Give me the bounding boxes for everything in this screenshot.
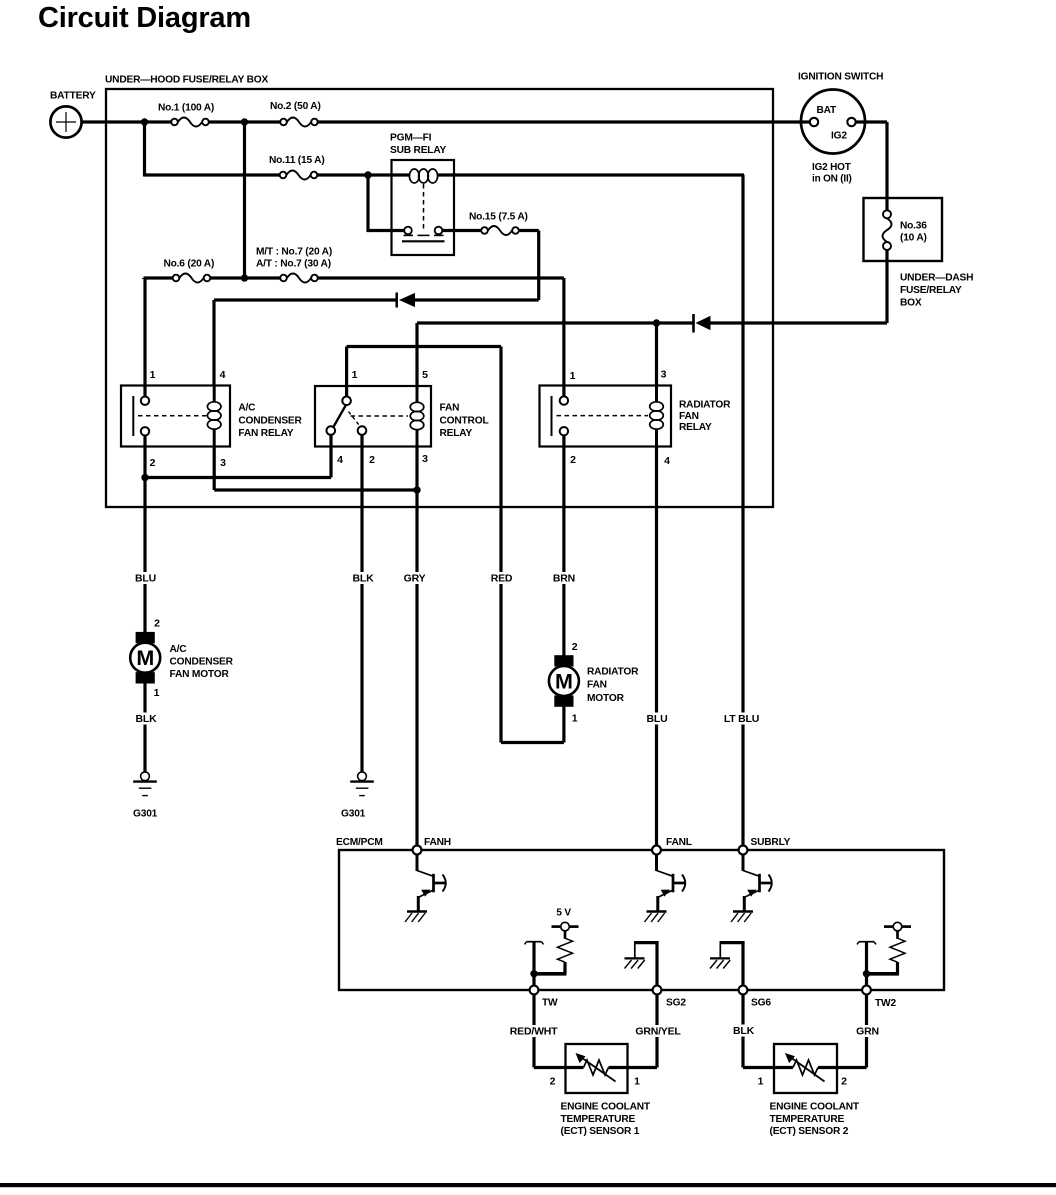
FCR switch arm — [333, 405, 346, 427]
svg-text:GRY: GRY — [404, 573, 426, 585]
svg-text:1: 1 — [634, 1075, 640, 1087]
No.6/No.7 fuse row — [144, 276, 174, 279]
svg-text:No.1 (100 A): No.1 (100 A) — [158, 103, 214, 114]
svg-text:(ECT) SENSOR 2: (ECT) SENSOR 2 — [770, 1126, 849, 1137]
transistor Q2 FANL driver — [652, 846, 661, 855]
fuse No.36 vertical — [883, 210, 891, 218]
svg-text:2: 2 — [154, 618, 160, 630]
svg-text:LT BLU: LT BLU — [724, 713, 759, 725]
wire color labels row 1 — [133, 572, 158, 584]
svg-text:No.11 (15 A): No.11 (15 A) — [269, 155, 325, 166]
ECM terminal FANL — [652, 846, 661, 855]
wire contact to No.15 fuse — [442, 229, 481, 232]
svg-text:RADIATOR: RADIATOR — [679, 400, 731, 411]
ECT sensor 2 — [774, 1044, 837, 1093]
node No.7 row junction — [241, 274, 248, 281]
svg-text:BRN: BRN — [553, 573, 575, 585]
wire SG6 to sensor2 pin1 — [741, 994, 744, 1067]
A/C condenser fan relay box — [121, 386, 230, 447]
svg-text:SUB RELAY: SUB RELAY — [390, 145, 447, 156]
svg-text:FAN RELAY: FAN RELAY — [238, 428, 293, 439]
svg-text:M: M — [555, 670, 573, 694]
svg-text:5: 5 — [422, 369, 428, 381]
PGM-FI sub relay armature dashed link — [423, 184, 425, 232]
svg-text:FAN: FAN — [587, 680, 607, 691]
ECM/PCM box — [339, 850, 944, 990]
svg-text:BAT: BAT — [817, 105, 838, 116]
ECM terminal SG6 — [739, 986, 748, 995]
svg-text:A/C: A/C — [238, 403, 256, 414]
ignition switch — [801, 90, 865, 154]
svg-text:UNDER—HOOD FUSE/RELAY BOX: UNDER—HOOD FUSE/RELAY BOX — [105, 75, 269, 86]
svg-text:MOTOR: MOTOR — [587, 693, 625, 704]
A/C relay contacts — [141, 397, 149, 405]
under-hood fuse/relay box — [106, 89, 773, 507]
wire A/C pin3 to FCR pin3 row — [213, 447, 216, 491]
node radiator relay coil feed — [653, 319, 660, 326]
svg-text:SG6: SG6 — [751, 998, 771, 1009]
svg-text:FAN: FAN — [679, 411, 699, 422]
wire motor to ground — [143, 682, 146, 772]
svg-text:1: 1 — [150, 369, 156, 381]
svg-text:TW: TW — [542, 998, 558, 1009]
wire No.15 to diode row — [519, 229, 539, 232]
ECM terminal TW — [530, 986, 539, 995]
wire BLU A/C pin2 down to motor — [143, 478, 146, 635]
svg-text:BLU: BLU — [135, 573, 156, 585]
wire label BLK — [134, 713, 159, 725]
transistor Q3 SUBRLY driver — [739, 846, 748, 855]
svg-text:RELAY: RELAY — [440, 428, 473, 439]
svg-text:RADIATOR: RADIATOR — [587, 667, 639, 678]
wire PGM-FI coil to LT BLU drop — [438, 173, 744, 176]
TW2 pull-up — [859, 941, 874, 943]
svg-text:M: M — [136, 646, 154, 670]
fuse No.7 — [280, 275, 287, 282]
radiator relay dashed link — [557, 415, 649, 417]
svg-text:A/T : No.7 (30 A): A/T : No.7 (30 A) — [256, 259, 331, 270]
svg-text:ENGINE COOLANT: ENGINE COOLANT — [561, 1101, 651, 1112]
sensor wire labels — [509, 1025, 558, 1037]
ground G301 right — [358, 772, 367, 781]
svg-text:SG2: SG2 — [666, 998, 686, 1009]
svg-text:in ON (II): in ON (II) — [812, 174, 852, 185]
diode D1 — [395, 293, 398, 308]
fuse No.1 100A — [171, 119, 178, 126]
A/C relay dashed link — [138, 415, 207, 417]
svg-text:2: 2 — [572, 641, 578, 653]
wire left drop to No.11 row — [143, 122, 146, 177]
wire No.6 to A/C relay pin 1 — [142, 278, 145, 279]
svg-text:2: 2 — [841, 1075, 847, 1087]
svg-text:4: 4 — [220, 369, 226, 381]
transistor Q1 FANH driver — [413, 846, 422, 855]
svg-text:GRN/YEL: GRN/YEL — [635, 1026, 681, 1038]
wire No.7 row to radiator relay pin 1 — [318, 276, 564, 279]
svg-text:No.36: No.36 — [900, 221, 927, 232]
svg-text:1: 1 — [758, 1075, 764, 1087]
svg-text:(ECT) SENSOR 1: (ECT) SENSOR 1 — [561, 1126, 640, 1137]
wire TW to sensor1 pin2 — [532, 994, 535, 1067]
svg-text:IGNITION SWITCH: IGNITION SWITCH — [798, 72, 883, 83]
wire SG2 to sensor1 pin1 — [655, 994, 658, 1067]
svg-text:FAN: FAN — [440, 403, 460, 414]
diode row upper (to A/C relay pin 4) — [212, 300, 215, 386]
svg-text:2: 2 — [150, 457, 156, 469]
node sub-relay contact feed — [364, 171, 371, 178]
wire BRN radiator pin2 down to motor — [562, 435, 565, 656]
radiator relay coil — [655, 386, 658, 403]
svg-text:No.15 (7.5 A): No.15 (7.5 A) — [469, 212, 528, 223]
wire GRY FCR pin3 down to ECM FANH — [415, 447, 418, 846]
svg-text:BLU: BLU — [647, 713, 668, 725]
svg-text:BLK: BLK — [353, 573, 375, 585]
ECM terminal SG2 — [653, 986, 662, 995]
wire RED vertical — [499, 347, 502, 743]
svg-text:G301: G301 — [133, 809, 158, 820]
battery — [50, 106, 81, 137]
PGM-FI sub relay coil — [409, 169, 419, 183]
svg-text:5 V: 5 V — [556, 907, 571, 918]
svg-text:2: 2 — [550, 1075, 556, 1087]
wire No.11 row to PGM-FI coil — [316, 173, 409, 176]
svg-text:A/C: A/C — [170, 644, 188, 655]
A/C relay contact bar — [132, 396, 134, 436]
svg-text:1: 1 — [570, 370, 576, 382]
svg-text:FAN MOTOR: FAN MOTOR — [170, 669, 230, 680]
svg-text:FANL: FANL — [666, 837, 692, 848]
svg-text:CONDENSER: CONDENSER — [238, 415, 302, 426]
fuse No.6 20A — [173, 275, 180, 282]
A/C relay coil — [213, 386, 216, 403]
svg-text:SUBRLY: SUBRLY — [751, 837, 791, 848]
svg-text:UNDER—DASH: UNDER—DASH — [900, 273, 973, 284]
svg-text:IG2 HOT: IG2 HOT — [812, 162, 851, 173]
wire LT BLU down to ECM SUBRLY — [741, 175, 744, 846]
wire A/C pin2 junction row — [143, 435, 146, 477]
wire drop to sub-relay contact — [366, 175, 369, 232]
radiator relay contact bar — [551, 396, 553, 436]
fuse No.11 15A — [280, 172, 287, 179]
svg-text:1: 1 — [572, 712, 578, 724]
PGM-FI sub relay contacts — [368, 229, 404, 232]
fuse No.2 50A — [280, 119, 287, 126]
svg-text:M/T : No.7 (20 A): M/T : No.7 (20 A) — [256, 247, 332, 258]
svg-text:BATTERY: BATTERY — [50, 90, 96, 101]
wire bus to ignition BAT — [317, 120, 811, 123]
svg-text:CONTROL: CONTROL — [440, 415, 489, 426]
ECM terminal TW2 — [862, 986, 871, 995]
FCR coil — [416, 386, 419, 403]
svg-text:BOX: BOX — [900, 297, 922, 308]
FCR common contact — [342, 397, 351, 406]
wire BLU radiator pin4 down to ECM FANL — [655, 447, 658, 846]
svg-text:2: 2 — [369, 454, 375, 466]
svg-text:3: 3 — [220, 457, 226, 469]
svg-text:PGM—FI: PGM—FI — [390, 133, 432, 144]
diode D2 — [692, 314, 695, 333]
svg-text:ENGINE COOLANT: ENGINE COOLANT — [770, 1101, 860, 1112]
svg-text:GRN: GRN — [856, 1026, 879, 1038]
bottom rule — [0, 1183, 1056, 1187]
svg-text:BLK: BLK — [136, 713, 158, 725]
svg-text:TW2: TW2 — [875, 998, 896, 1009]
svg-text:3: 3 — [422, 453, 428, 465]
wire radiator motor pin1 to RED — [562, 705, 565, 742]
ECM terminal SUBRLY — [739, 846, 748, 855]
svg-text:IG2: IG2 — [831, 131, 847, 142]
FCR dashed links — [351, 415, 409, 417]
fan control relay box — [315, 386, 431, 447]
wire bus segment — [209, 120, 281, 123]
svg-text:TEMPERATURE: TEMPERATURE — [561, 1114, 636, 1125]
node bus junction left — [141, 118, 148, 125]
svg-text:RELAY: RELAY — [679, 422, 712, 433]
svg-text:4: 4 — [664, 455, 670, 467]
SG2 internal ground — [655, 943, 658, 987]
svg-text:ECM/PCM: ECM/PCM — [336, 837, 383, 848]
svg-text:G301: G301 — [341, 809, 366, 820]
wire No.36 to diode row lower — [885, 250, 888, 323]
wire battery to bus — [82, 120, 172, 123]
radiator fan motor — [554, 655, 573, 666]
svg-text:RED: RED — [491, 573, 513, 585]
wire right bus drop to No.6/No.7 row — [243, 122, 246, 278]
svg-text:1: 1 — [352, 369, 358, 381]
svg-text:4: 4 — [337, 454, 343, 466]
svg-text:3: 3 — [661, 369, 667, 381]
svg-text:CONDENSER: CONDENSER — [170, 656, 234, 667]
svg-text:No.2 (50 A): No.2 (50 A) — [270, 101, 321, 112]
svg-text:FUSE/RELAY: FUSE/RELAY — [900, 285, 962, 296]
under-dash fuse/relay box — [864, 198, 943, 261]
ECT sensor 1 — [566, 1044, 628, 1093]
PGM-FI sub relay box — [392, 160, 455, 255]
svg-text:2: 2 — [570, 454, 576, 466]
svg-text:(10 A): (10 A) — [900, 232, 927, 243]
FCR throw contacts — [327, 426, 336, 435]
wire IG2 to under-dash fuse — [856, 120, 887, 123]
ECM terminal FANH — [413, 846, 422, 855]
svg-text:1: 1 — [154, 687, 160, 699]
radiator fan relay box — [540, 386, 672, 447]
ground G301 left — [141, 772, 150, 781]
svg-text:BLK: BLK — [733, 1025, 755, 1037]
svg-text:Circuit Diagram: Circuit Diagram — [38, 2, 251, 34]
wire BLK FCR pin2 down to ground — [360, 435, 363, 772]
wire to fan control relay pin 5 — [415, 323, 418, 386]
svg-text:RED/WHT: RED/WHT — [510, 1026, 558, 1038]
fuse No.15 7.5A — [481, 227, 488, 234]
svg-text:FANH: FANH — [424, 837, 451, 848]
svg-text:TEMPERATURE: TEMPERATURE — [770, 1114, 845, 1125]
wire TW2 to sensor2 pin2 — [865, 994, 868, 1067]
node bus junction right — [241, 118, 248, 125]
radiator relay contacts — [560, 396, 568, 404]
wire color labels row 2 — [645, 713, 670, 725]
TW pull-up to 5V — [527, 941, 542, 943]
svg-text:No.6 (20 A): No.6 (20 A) — [164, 259, 215, 270]
SG6 internal ground — [741, 943, 744, 987]
node GRY junction — [413, 486, 420, 493]
fan control relay pin 1 row to RED drop — [345, 347, 348, 397]
A/C condenser fan motor — [136, 632, 155, 643]
